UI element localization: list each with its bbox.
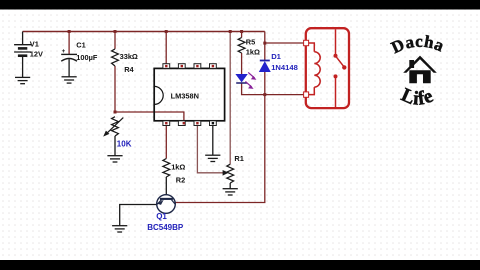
svg-text:33kΩ: 33kΩ — [120, 52, 138, 61]
capacitor C1 — [61, 54, 77, 76]
svg-text:R1: R1 — [234, 154, 243, 163]
ground (battery) — [15, 77, 30, 83]
svg-text:10K: 10K — [117, 139, 132, 148]
node: rail junction C1 — [68, 30, 71, 33]
node: rail junction R1 — [229, 30, 232, 33]
resistor R5 — [238, 38, 245, 54]
pin dots — [165, 65, 214, 125]
svg-text:1kΩ: 1kΩ — [171, 162, 185, 171]
wire: R2 to Q1 base — [165, 177, 167, 195]
wire: R1 top column — [229, 32, 231, 165]
relay coil — [307, 43, 314, 52]
node: rail junction pin8 — [165, 30, 168, 33]
potentiometer R1 — [227, 164, 234, 183]
potentiometer 10K — [112, 117, 119, 136]
ground (pin4) — [205, 155, 220, 161]
svg-text:R5: R5 — [246, 38, 255, 47]
relay K1 — [306, 28, 349, 108]
pin boxes top — [163, 64, 216, 69]
resistor R2 — [163, 159, 170, 178]
wire: pin4 to ground — [212, 126, 214, 156]
wire: R5 top lead — [241, 32, 243, 38]
relay switch — [335, 29, 337, 54]
LED light arrows — [248, 72, 254, 78]
wire: D1 column and collector riser — [175, 32, 265, 203]
svg-text:BC549BP: BC549BP — [147, 223, 184, 232]
wire: R5 to LED link — [241, 53, 243, 74]
svg-text:R4: R4 — [124, 65, 134, 74]
ground (Q1 emitter) — [112, 226, 127, 232]
transistor Q1 — [157, 195, 176, 214]
ground (10K pot) — [107, 156, 122, 162]
svg-text:+: + — [62, 48, 66, 55]
wire: top +12V rail — [23, 31, 265, 33]
svg-text:LM358N: LM358N — [171, 92, 199, 101]
svg-text:D1: D1 — [271, 52, 281, 61]
wire: R4 column — [114, 32, 116, 113]
wire: battery top lead — [22, 32, 24, 45]
wire: pin3 to R1 wiper — [197, 126, 223, 173]
svg-text:1N4148: 1N4148 — [271, 63, 298, 72]
svg-text:Q1: Q1 — [156, 212, 167, 221]
svg-text:100µF: 100µF — [76, 53, 98, 62]
op-amp U1 LM358N — [154, 68, 224, 120]
Dacha Life logo — [388, 32, 447, 110]
svg-text:12V: 12V — [30, 50, 43, 59]
ground (R1) — [223, 189, 238, 195]
relay pin notches — [304, 40, 309, 45]
wire: R5/LED bottom to relay coil bottom — [242, 83, 308, 95]
pot 10K wiper arrow — [106, 118, 124, 135]
node: relay coil tap — [263, 42, 266, 45]
battery V1 — [14, 45, 31, 77]
svg-text:1kΩ: 1kΩ — [246, 47, 260, 56]
node: rail junction R4 — [114, 30, 117, 33]
node: pot 10K junction — [114, 111, 117, 114]
wire: relay coil top link — [265, 42, 308, 44]
wire: op-amp pin8 riser — [165, 32, 167, 64]
wire: pin1 to R2 — [165, 126, 167, 159]
wire: R1 bottom lead — [229, 183, 231, 189]
svg-text:C1: C1 — [76, 41, 85, 50]
resistor R4 — [112, 49, 119, 66]
letterbox bars — [0, 0, 480, 10]
logo house — [403, 56, 437, 84]
LED (R5 branch) — [236, 74, 247, 81]
wire: pot wiper to op-amp pin2 — [115, 112, 184, 124]
pin boxes bottom — [163, 121, 216, 126]
node: D1 anode junction — [263, 93, 266, 96]
wire: pot 10K bottom lead — [114, 136, 116, 156]
wire: Q1 emitter to ground — [120, 205, 157, 226]
diode D1 1N4148 — [260, 60, 270, 62]
wire: C1 top lead — [68, 32, 70, 55]
node: rail junction R5 — [240, 30, 243, 33]
svg-text:V1: V1 — [30, 39, 39, 48]
ground (C1) — [62, 77, 77, 83]
wiper arrowhead at R1 — [223, 170, 229, 176]
svg-text:R2: R2 — [176, 176, 185, 185]
